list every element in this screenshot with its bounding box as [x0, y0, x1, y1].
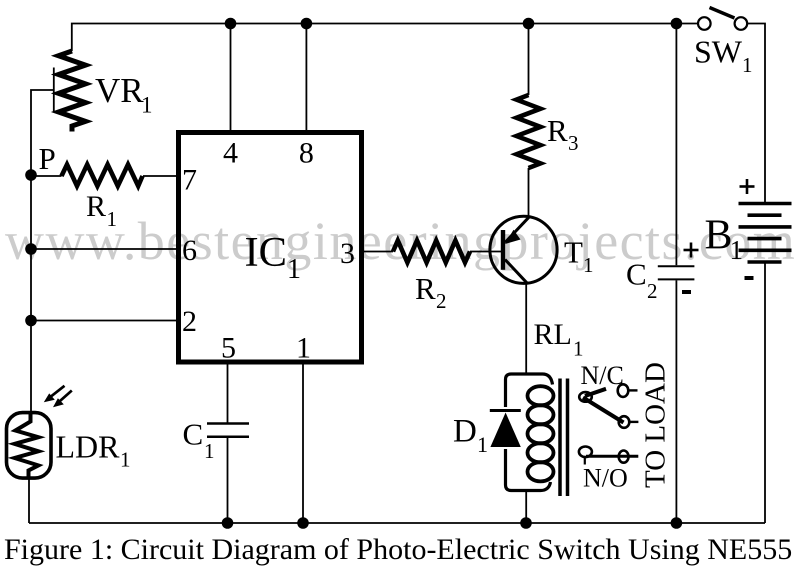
svg-text:C: C: [626, 257, 647, 292]
svg-text:1: 1: [287, 254, 301, 285]
N/O terminal: [619, 451, 629, 463]
resistor R3: [517, 95, 541, 168]
potentiometer VR1: [59, 51, 86, 132]
svg-text:T: T: [564, 235, 583, 270]
svg-text:VR: VR: [95, 71, 144, 110]
relay contact N/O pivot: [579, 447, 592, 458]
wire pin2: [31, 320, 178, 322]
svg-text:C: C: [183, 417, 204, 452]
wire top rail: [72, 24, 698, 52]
wire pin5 to C1: [227, 365, 229, 423]
svg-text:3: 3: [340, 237, 355, 270]
resistor R2: [393, 241, 470, 263]
wire C2 / load branch: [675, 24, 677, 266]
svg-text:1: 1: [730, 235, 744, 265]
wire pin7: [31, 175, 62, 177]
svg-text:1: 1: [742, 53, 753, 77]
wire pin6: [31, 248, 178, 250]
svg-text:5: 5: [221, 332, 236, 365]
pin 8: [305, 24, 307, 131]
svg-text:7: 7: [182, 164, 197, 197]
svg-text:N/C: N/C: [581, 361, 624, 390]
capacitor C2: [658, 265, 695, 267]
svg-text:2: 2: [436, 289, 447, 313]
relay contact N/C pivot: [579, 392, 592, 402]
C2 minus: [682, 290, 691, 294]
svg-text:1: 1: [573, 337, 584, 361]
svg-text:1: 1: [583, 253, 594, 277]
svg-text:1: 1: [120, 448, 131, 472]
wire relay to bottom rail: [525, 491, 527, 524]
svg-text:P: P: [39, 141, 56, 176]
svg-text:D: D: [453, 414, 477, 450]
LDR light arrows: [48, 386, 72, 405]
svg-text:B: B: [705, 213, 733, 259]
svg-text:LDR: LDR: [56, 429, 121, 465]
T1 base bar: [501, 230, 505, 270]
svg-text:2: 2: [182, 305, 197, 338]
svg-text:R: R: [547, 113, 568, 148]
C2 plus: [684, 243, 699, 258]
node pin6 junction: [25, 243, 37, 255]
relay core bars: [558, 379, 562, 497]
svg-text:6: 6: [182, 234, 197, 267]
switch SW1: [698, 17, 711, 30]
svg-text:IC: IC: [245, 229, 288, 276]
wire bottom rail: [29, 522, 765, 524]
relay coil loops: [528, 386, 554, 481]
svg-text:R: R: [415, 271, 436, 306]
wire pin1 to bottom rail: [302, 365, 304, 524]
svg-text:4: 4: [223, 137, 238, 170]
svg-text:www.bestengineeringprojects.co: www.bestengineeringprojects.com: [5, 211, 796, 271]
T1 emitter arrow: [505, 230, 521, 244]
node pin2 junction: [25, 315, 37, 327]
svg-text:1: 1: [477, 432, 488, 457]
op-amp IC1 box: [179, 133, 362, 363]
svg-text:1: 1: [107, 207, 118, 231]
diode D1: [490, 409, 521, 412]
svg-text:RL: RL: [534, 318, 572, 351]
svg-text:1: 1: [141, 93, 153, 118]
svg-text:1: 1: [296, 332, 311, 365]
T1 emitter diagonal: [505, 217, 529, 243]
N/C blade stub: [585, 389, 606, 396]
wire R3 branch: [528, 24, 530, 96]
svg-text:TO LOAD: TO LOAD: [640, 362, 672, 488]
wire left rail below LDR: [28, 478, 30, 524]
wire left rail: [31, 90, 54, 413]
wire collector to relay: [525, 283, 527, 374]
relay RL1 coil assembly: [506, 374, 553, 491]
B1 plus: [740, 179, 755, 194]
svg-text:R: R: [86, 190, 106, 223]
node P: [25, 169, 37, 181]
T1 collector diagonal: [505, 260, 527, 284]
wire right rail below battery: [764, 264, 766, 524]
middle terminal: [619, 416, 630, 428]
svg-text:3: 3: [568, 131, 579, 155]
svg-text:N/O: N/O: [583, 464, 628, 493]
svg-text:Figure 1: Circuit Diagram of P: Figure 1: Circuit Diagram of Photo-Elect…: [4, 533, 792, 566]
B1 minus: [745, 276, 754, 280]
LDR LDR1: [7, 413, 52, 479]
wire top-right corner to battery: [748, 24, 766, 203]
resistor R1: [62, 165, 143, 187]
pin 4: [230, 24, 232, 131]
VR1 wiper bar: [53, 68, 55, 113]
capacitor C1: [207, 422, 249, 425]
battery B1: [739, 204, 792, 263]
transistor T1: [490, 216, 557, 283]
svg-text:1: 1: [204, 439, 215, 463]
svg-text:SW: SW: [694, 34, 743, 70]
N/C moving arm: [583, 398, 624, 423]
svg-text:8: 8: [299, 137, 314, 170]
wire pin3 to R2: [362, 251, 393, 253]
N/O arm: [586, 455, 638, 458]
N/C terminal: [618, 384, 629, 397]
svg-text:2: 2: [647, 279, 658, 303]
